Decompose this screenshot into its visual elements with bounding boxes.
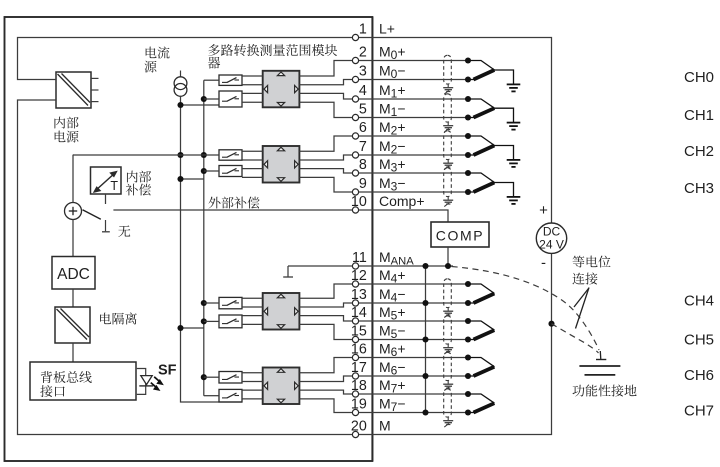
svg-text:M0−: M0− bbox=[379, 63, 406, 82]
svg-text:4: 4 bbox=[359, 83, 367, 99]
wire field MANA bbox=[288, 265, 453, 267]
wire MUX2 pin4 to terminal 9 bbox=[299, 177, 355, 192]
wire MUX1 pin4 to terminal 5 bbox=[299, 102, 355, 117]
wire feed to S8 bbox=[204, 395, 219, 397]
wire MUX2 input 3 bbox=[242, 168, 263, 170]
thermocouple CH0 connection dots bbox=[465, 57, 471, 82]
label gongnengxing-jiedi (functional earth) bbox=[572, 384, 636, 396]
cable shield CH1 with ground tap bbox=[443, 94, 453, 132]
wire field M6+ bbox=[356, 357, 469, 359]
wire MUX3 input 4 bbox=[242, 323, 263, 325]
internal compensation sensor box bbox=[91, 167, 122, 194]
wire MUX1 pin3 to terminal 4 bbox=[299, 93, 355, 99]
svg-text:20: 20 bbox=[351, 419, 367, 435]
internal power supply converter bbox=[56, 72, 99, 108]
multiplexer block MUX2 bbox=[263, 146, 300, 183]
svg-text:+: + bbox=[539, 202, 548, 219]
wire field L+ to DC source bbox=[356, 38, 552, 224]
wire MUX3 pin1 to terminal 12 bbox=[299, 284, 355, 298]
svg-text:2: 2 bbox=[359, 45, 367, 61]
svg-text:CH3: CH3 bbox=[684, 180, 714, 197]
wire MUX2 pin2 to terminal 7 bbox=[299, 155, 355, 160]
wire field M0- bbox=[356, 79, 469, 81]
label neibu-buchang (internal compensation) bbox=[126, 171, 151, 196]
svg-text:6: 6 bbox=[359, 120, 367, 136]
wire MUX2 input 2 bbox=[242, 159, 263, 161]
thermocouple CH6 bbox=[468, 358, 495, 377]
wire MUX1 input 2 bbox=[242, 84, 263, 86]
thermocouple CH1 bbox=[468, 99, 520, 130]
svg-text:-: - bbox=[541, 255, 546, 272]
cable shield CH6 with ground tap bbox=[443, 352, 453, 390]
thermocouple CH0 bbox=[468, 61, 520, 92]
terminal circles 1-20 bbox=[352, 34, 358, 437]
svg-text:M7+: M7+ bbox=[379, 377, 406, 396]
label multiplexer title bbox=[208, 44, 337, 69]
contact none (wu) bbox=[105, 220, 107, 231]
thermocouple CH2 bbox=[468, 136, 520, 167]
svg-text:M1−: M1− bbox=[379, 101, 406, 120]
wire switch feed bus vertical bbox=[203, 80, 205, 396]
thermocouple CH6 connection dots bbox=[465, 354, 471, 379]
svg-text:24 V: 24 V bbox=[539, 238, 564, 252]
label waibu-buchang (external compensation) bbox=[209, 197, 260, 209]
svg-text:CH6: CH6 bbox=[684, 367, 714, 384]
svg-text:M3+: M3+ bbox=[379, 156, 406, 175]
wire field M3- bbox=[356, 191, 469, 193]
cable shield CH3 with ground tap bbox=[443, 168, 453, 207]
node MANA reference stub bbox=[287, 266, 289, 277]
current source symbol bbox=[174, 71, 187, 97]
cable shield CH4 with ground tap bbox=[443, 279, 453, 318]
thermocouple CH4 bbox=[468, 284, 495, 303]
svg-text:12: 12 bbox=[351, 268, 367, 284]
wire field M0+ bbox=[356, 60, 469, 62]
svg-text:M4−: M4− bbox=[379, 286, 406, 305]
wire feed to S6 bbox=[204, 320, 219, 322]
wire bus link y179 bbox=[181, 178, 204, 180]
wire field M2+ bbox=[356, 135, 469, 137]
svg-text:13: 13 bbox=[351, 287, 367, 303]
wire MUX1 input 3 bbox=[242, 92, 263, 94]
wire isolation to backplane bbox=[72, 343, 74, 362]
terminal numbers 1-20 bbox=[351, 22, 367, 435]
svg-text:CH2: CH2 bbox=[684, 143, 714, 160]
label dian-geli (isolation) bbox=[100, 313, 137, 325]
wire feed to S4 bbox=[204, 170, 219, 172]
wire MUX3 input 3 bbox=[242, 315, 263, 317]
junction dots on buses bbox=[177, 96, 206, 380]
wire field M4- bbox=[356, 302, 469, 304]
svg-text:CH7: CH7 bbox=[684, 403, 714, 420]
svg-text:18: 18 bbox=[351, 378, 367, 394]
wire field Comp+ bbox=[356, 210, 449, 222]
svg-text:MANA: MANA bbox=[379, 249, 414, 268]
cable shield CH2 with ground tap bbox=[443, 131, 453, 170]
COMP box bbox=[431, 222, 489, 247]
wire feed to S2 bbox=[204, 98, 219, 100]
label dengdianwei-lianjie (equipotential bonding) bbox=[572, 256, 610, 285]
wire MUX4 input 4 bbox=[242, 398, 263, 400]
wire L+ terminal1 to power supply bbox=[18, 38, 356, 80]
thermocouple CH5 bbox=[468, 321, 495, 340]
thermocouple CH7 bbox=[468, 394, 495, 413]
cable shield CH0 with ground tap bbox=[443, 55, 453, 94]
wire field M1- bbox=[356, 117, 469, 119]
wire field M7+ bbox=[356, 393, 469, 395]
cable shield CH7 with ground tap bbox=[443, 389, 453, 427]
switch S7 bbox=[219, 372, 242, 384]
bonding break mark long bbox=[576, 288, 590, 329]
wire COMP to MANA bbox=[447, 247, 449, 266]
thermocouple CH3 bbox=[468, 173, 520, 204]
svg-text:T: T bbox=[110, 179, 118, 193]
svg-text:M6−: M6− bbox=[379, 359, 406, 378]
wire M power supply return to terminal 20 bbox=[18, 100, 356, 435]
svg-text:8: 8 bbox=[359, 157, 367, 173]
svg-text:M6+: M6+ bbox=[379, 341, 406, 360]
wire MUX1 input 1 bbox=[242, 75, 263, 77]
svg-text:CH5: CH5 bbox=[684, 331, 714, 348]
wire MUX1 input 4 bbox=[242, 101, 263, 103]
switch S2 bbox=[219, 91, 242, 107]
DC 24V source bbox=[536, 223, 566, 253]
SF fault LED bbox=[137, 369, 163, 395]
wire field M5- bbox=[356, 339, 469, 341]
thermocouple CH3 connection dots bbox=[465, 170, 471, 195]
wire bus link y105 bbox=[181, 104, 220, 106]
thermocouple CH1 connection dots bbox=[465, 96, 471, 121]
svg-text:14: 14 bbox=[351, 305, 367, 321]
switch S4 bbox=[219, 166, 242, 177]
selector switch lever bbox=[83, 210, 101, 219]
galvanic isolation box bbox=[55, 307, 90, 343]
label dianliu-yuan (current source) bbox=[144, 46, 169, 72]
wire T-box contact stub bbox=[105, 194, 107, 204]
svg-text:17: 17 bbox=[351, 360, 367, 376]
wire MUX4 input 1 bbox=[242, 372, 263, 374]
wire feed to S7 bbox=[204, 376, 219, 378]
module enclosure box bbox=[5, 17, 373, 461]
svg-text:16: 16 bbox=[351, 342, 367, 358]
svg-text:M2−: M2− bbox=[379, 138, 406, 157]
svg-text:15: 15 bbox=[351, 324, 367, 340]
svg-text:M5−: M5− bbox=[379, 323, 406, 342]
wire current source bus vertical bbox=[181, 96, 243, 402]
thermocouple CH7 connection dots bbox=[465, 391, 471, 416]
switch S6 bbox=[219, 315, 242, 328]
svg-text:L+: L+ bbox=[379, 21, 395, 37]
cable shield CH5 with ground tap bbox=[443, 316, 453, 354]
MANA bus junction dots bbox=[422, 263, 428, 416]
wire MUX2 pin1 to terminal 6 bbox=[299, 136, 355, 151]
svg-text:DC: DC bbox=[543, 225, 561, 239]
wire MUX3 input 2 bbox=[242, 306, 263, 308]
svg-text:ADC: ADC bbox=[57, 266, 90, 283]
wire ADC to isolation bbox=[72, 289, 74, 307]
wire MUX4 input 3 bbox=[242, 389, 263, 391]
label beiban-zongxian-jiekou bbox=[40, 371, 91, 397]
equipotential bonding dashed curve 2 bbox=[552, 324, 599, 353]
svg-text:SF: SF bbox=[158, 363, 177, 379]
svg-text:M4+: M4+ bbox=[379, 267, 406, 286]
wire MUX4 pin1 to terminal 16 bbox=[299, 358, 355, 373]
svg-text:Comp+: Comp+ bbox=[379, 193, 425, 209]
equipotential bonding dashed curve 1 bbox=[452, 267, 600, 351]
multiplexer block MUX3 bbox=[263, 293, 300, 330]
wire MUX4 pin2 to terminal 17 bbox=[299, 376, 355, 382]
wire MUX2 input 1 bbox=[242, 150, 263, 152]
svg-text:CH1: CH1 bbox=[684, 107, 714, 124]
multiplexer block MUX4 bbox=[263, 368, 300, 405]
wire MUX2 input 4 bbox=[242, 176, 263, 178]
wire field M4+ bbox=[356, 283, 469, 285]
label wu (none) bbox=[118, 225, 130, 237]
svg-text:M2+: M2+ bbox=[379, 119, 406, 138]
wire MUX3 pin4 to terminal 15 bbox=[299, 324, 355, 339]
switch S5 bbox=[219, 297, 242, 308]
label neibu-dianyuan (internal power) bbox=[54, 117, 78, 143]
svg-text:M5+: M5+ bbox=[379, 304, 406, 323]
svg-text:19: 19 bbox=[351, 397, 367, 413]
wire MUX2 pin3 to terminal 8 bbox=[299, 169, 355, 173]
svg-text:5: 5 bbox=[359, 102, 367, 118]
svg-text:M0+: M0+ bbox=[379, 44, 406, 63]
svg-text:M7−: M7− bbox=[379, 396, 406, 415]
junction dot COMP-MANA bbox=[445, 263, 451, 269]
wire MUX4 pin4 to terminal 19 bbox=[299, 399, 355, 413]
wire MUX1 pin1 to terminal 2 bbox=[299, 61, 355, 77]
thermocouple CH5 connection dots bbox=[465, 318, 471, 343]
backplane bus interface box bbox=[30, 362, 136, 400]
svg-text:10: 10 bbox=[351, 194, 367, 210]
wire MANA minus bus vertical bbox=[425, 266, 427, 413]
wire field M7- bbox=[356, 412, 469, 414]
wire MUX3 input 1 bbox=[242, 297, 263, 299]
wire summing node to ADC bbox=[72, 220, 74, 257]
svg-text:7: 7 bbox=[359, 139, 367, 155]
wire field M1+ bbox=[356, 98, 469, 100]
wire field M5+ bbox=[356, 320, 469, 322]
summing node circle bbox=[65, 203, 82, 220]
wire MUX4 input 2 bbox=[242, 381, 263, 383]
switch S8 bbox=[219, 389, 242, 402]
wire summing node to y155 bus bbox=[72, 155, 74, 203]
svg-text:M3−: M3− bbox=[379, 175, 406, 194]
functional earth symbol bbox=[579, 351, 620, 375]
wire MUX3 pin3 to terminal 14 bbox=[299, 316, 355, 321]
svg-text:11: 11 bbox=[352, 250, 367, 266]
junction dot equipotential tap bbox=[548, 321, 554, 327]
svg-text:9: 9 bbox=[359, 176, 367, 192]
wire MUX1 pin2 to terminal 3 bbox=[299, 80, 355, 85]
svg-text:1: 1 bbox=[359, 22, 367, 38]
svg-text:CH0: CH0 bbox=[684, 69, 714, 86]
svg-text:COMP: COMP bbox=[436, 228, 484, 244]
wire feed to S3 bbox=[73, 154, 219, 156]
wire feed to S1 bbox=[204, 79, 219, 81]
wire field M6- bbox=[356, 375, 469, 377]
wire field M to DC source bbox=[356, 253, 552, 434]
svg-text:3: 3 bbox=[359, 64, 367, 80]
switch S3 bbox=[219, 150, 242, 160]
wire MUX4 pin3 to terminal 18 bbox=[299, 390, 355, 394]
wire feed to S5 bbox=[204, 302, 219, 304]
ADC box bbox=[52, 257, 95, 290]
wire field M3+ bbox=[356, 172, 469, 174]
wire bus link y328 bbox=[181, 327, 204, 329]
svg-text:M1+: M1+ bbox=[379, 82, 406, 101]
terminal name labels bbox=[379, 21, 425, 434]
thermocouple CH2 connection dots bbox=[465, 133, 471, 158]
switch S1 bbox=[219, 75, 242, 85]
terminal strip vertical line bbox=[371, 17, 373, 461]
bonding break mark short bbox=[574, 289, 589, 308]
thermocouple CH4 connection dots bbox=[465, 281, 471, 306]
svg-text:CH4: CH4 bbox=[684, 293, 714, 310]
svg-text:M: M bbox=[379, 418, 391, 434]
wire MUX3 pin2 to terminal 13 bbox=[299, 303, 355, 307]
wire field M2- bbox=[356, 154, 469, 156]
multiplexer block MUX1 bbox=[263, 71, 300, 108]
wire external compensation to terminal 10 bbox=[113, 209, 355, 211]
